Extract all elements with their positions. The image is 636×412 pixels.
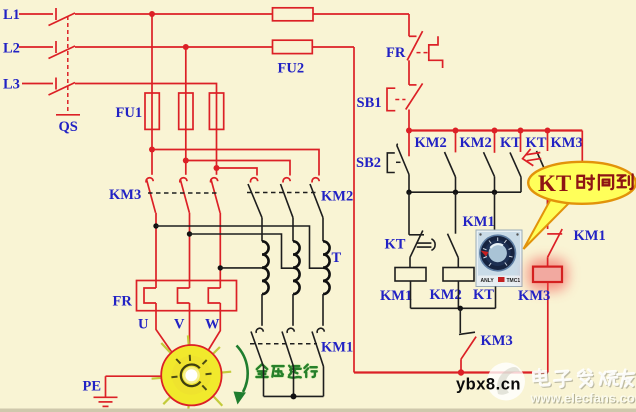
wire left control feed vertical [353,47,355,373]
FR control NC contact [407,31,429,60]
contactor KM3 main contact 1 [146,178,156,213]
svg-text:KM2: KM2 [321,189,353,205]
wire U to motor [156,311,172,353]
contactor KM3 main contact 2 [180,178,190,213]
motor M body [161,345,221,405]
contact KM1 aux right NO [547,205,562,267]
motor M rays [152,335,232,412]
node bottom bus [458,369,464,375]
svg-text:V: V [174,317,185,333]
wire KM2 coil to rail2 [457,281,459,308]
svg-text:FR: FR [386,45,406,61]
node star point [291,393,297,399]
QS linkage dashed [67,16,69,112]
contactor KM3 main contact 3 [211,178,221,213]
svg-text:PE: PE [83,379,102,395]
coil KM2 [443,268,474,282]
contactor KM2 main contact 2 [281,178,294,218]
QS handle bar [56,114,80,116]
wire tap to coil2 [190,234,294,268]
node phase1 tap [149,147,155,153]
contactor KM1 main contact 1 [251,328,264,366]
node phase3 tap [214,165,220,171]
fuse FU1-2 [179,93,193,129]
wire FR internal 1 [155,281,157,311]
callout arrow red [521,148,542,168]
wire PE to motor [106,375,162,377]
watermark elecfans CJK [534,370,635,389]
wire FU2-2 to left control feed [312,46,354,48]
wire L1 incoming [19,13,53,15]
svg-text:KM3: KM3 [551,135,583,151]
text full-voltage running [256,364,316,377]
wire tap1 to KM2 right column [152,150,319,176]
rotation arrowhead [234,392,247,405]
contactor KM1 main contact 3 [312,328,324,366]
timer KT device photo [476,230,522,287]
svg-text:KM2: KM2 [415,135,447,151]
wire fuse1 internal [151,93,153,129]
contactor KM2 main contact 3 [310,178,323,218]
fuse FU2-1 [273,8,314,21]
coil KM3 [533,267,562,282]
node bus SB2 [406,128,412,134]
pushbutton SB2 NO [387,131,409,193]
wire L1 to FU2 [75,13,273,15]
rotation arrow green [237,346,248,393]
svg-text:L2: L2 [3,41,20,57]
FR heater element 3 [208,288,220,303]
svg-text:U: U [138,317,149,333]
svg-text:KM1: KM1 [321,340,353,356]
wire fuse2 internal [185,93,187,129]
node rail2 [458,306,463,311]
wire coil3 lower lead [322,294,324,326]
wire star bar leads [264,367,324,397]
fuse FU1-1 [145,93,159,129]
fuse FU2-2 [273,40,313,53]
coil KM1 [395,268,426,282]
callout bubble tail [524,196,573,249]
wire KM1 coil to rail2 [410,281,412,308]
wire coil3 upper lead [322,218,324,242]
wire star point bar [264,395,324,397]
transformer T winding 2 [293,241,300,294]
wire phase2 to FR [189,213,191,281]
transformer T winding 1 [262,241,269,294]
wire W to motor [208,311,221,352]
wire SB1 to bus [408,110,410,131]
wire rail to timer KT [494,192,496,230]
motor hub [185,369,197,381]
node bus KM2b [492,128,498,134]
control bus top [409,129,582,131]
svg-text:KM2: KM2 [460,135,492,151]
wire rail to KT delay contact [408,192,410,235]
wire L3 to fuse column [75,84,217,94]
node bus KM2a [453,128,459,134]
contact KM2 branch3 [484,131,495,193]
wire timer to rail2 [495,287,497,309]
wire coil2 upper lead [292,218,294,242]
svg-text:KM3: KM3 [109,187,141,203]
wire control feed drop [408,14,410,36]
contact KT branch4 [510,131,521,193]
motor ray dark marks [171,355,211,390]
node transformer tap3 [218,265,223,270]
control rail [409,191,521,193]
thermal overload FR heater box [137,281,237,311]
svg-text:W: W [205,317,220,333]
wire rail to KM1 aux contact [455,192,457,234]
FR heater element 1 [144,288,156,303]
switch QS pole 2 [49,41,76,59]
switch QS pole 3 [49,78,76,96]
svg-text:FR: FR [113,294,133,310]
pushbutton SB1 NC [387,83,423,110]
node rail SB2 [406,190,411,195]
wire phase3 below fuse [216,129,218,174]
node bus KTb [545,128,551,134]
contactor KM2 main contact 1 [248,178,262,218]
transformer T winding 3 [323,241,330,294]
callout bubble [528,162,636,204]
wire phase1 below fuse [151,129,153,174]
wire tap2 to KM2 middle column [186,161,290,176]
wire FR to SB1 [408,60,410,85]
wire FR internal 3 [219,281,221,311]
FR manual reset symbol [429,36,443,68]
control rail2 [411,307,496,309]
wire FU2-1 to control column [313,13,409,15]
svg-text:FU2: FU2 [278,61,305,77]
wire rail2 to KM3 aux [459,308,461,333]
text full-voltage running (glow) [256,364,316,377]
node L2/FU2 junction [183,44,189,50]
wire KM3 coil to bottom bus [547,282,549,373]
KM3 linkage dashed [148,192,218,194]
wire fuse3 internal [216,93,218,129]
KM1 linkage dashed [250,343,317,345]
svg-text:KM1: KM1 [463,214,495,230]
contact KT branch5 [537,131,548,206]
svg-text:KT: KT [500,135,521,151]
svg-text:KM1: KM1 [574,228,606,244]
wire phase2 below fuse [185,129,187,174]
wire L2 to FU2 [75,46,273,48]
svg-text:KM3: KM3 [481,333,513,349]
KM2 linkage dashed [247,192,319,194]
contactor KM1 main contact 2 [282,328,294,366]
node transformer tap2 [187,231,192,236]
wire coil1 upper lead [261,218,263,242]
timed contact KT NC delayed [409,231,435,258]
svg-text:L1: L1 [3,7,20,23]
svg-text:ANLY: ANLY [481,278,495,284]
wire coil1 lower lead [261,294,263,326]
switch QS pole 1 [49,8,76,26]
wire bus corner branch KM3 [548,131,583,206]
svg-text:QS: QS [59,119,78,135]
wire phase2 drop to FU1 [185,47,187,93]
svg-text:SB1: SB1 [357,95,382,111]
wire phase3 to FR [219,213,221,281]
coil KM3 glow [527,258,568,291]
svg-text:FU1: FU1 [116,105,143,121]
fuse FU1-3 [209,93,223,129]
svg-text:KM3: KM3 [518,288,550,304]
wire V to motor [189,311,191,346]
svg-text:ybx8.cn: ybx8.cn [456,376,521,394]
motor inner ring [181,364,201,386]
wire phase1 drop to FU1 [151,14,153,93]
svg-text:KT: KT [538,171,571,196]
node phase2 tap [183,158,189,164]
svg-text:www.elecfans.com: www.elecfans.com [530,391,636,406]
svg-text:SB2: SB2 [356,155,381,171]
contact KM1 aux NO [448,234,459,268]
wire L3 incoming [22,83,53,85]
wire L2 incoming [19,46,53,48]
node bus KTa [518,128,524,134]
contact KM3 aux NO [459,332,476,372]
FR heater element 2 [178,288,190,303]
node L1/FU1 junction [149,11,155,17]
ground symbol [94,376,118,406]
svg-text:T: T [332,250,342,266]
wire tap3 to KM2 left column [217,168,258,176]
svg-text:KT: KT [385,237,406,253]
svg-text:L3: L3 [3,77,20,93]
svg-text:KT: KT [473,287,494,303]
svg-text:KM1: KM1 [380,288,412,304]
wire FR internal 2 [189,281,191,311]
node rail KM2a [453,190,458,195]
wire phase1 to FR [155,213,157,281]
wire tap to coil1 [220,267,262,269]
contact KM2 self-hold branch2 [445,131,456,193]
svg-text:KM2: KM2 [430,287,462,303]
wire tap to coil3 [156,226,323,268]
node rail KM2b [492,190,497,195]
svg-text:KT: KT [526,135,547,151]
control bus bottom [354,371,548,373]
wire to KM1 coil [409,258,411,268]
wire coil2 lower lead [292,294,294,326]
watermark logo circle [487,363,525,401]
svg-text:TMC1: TMC1 [507,278,521,284]
node transformer tap1 [153,223,158,228]
